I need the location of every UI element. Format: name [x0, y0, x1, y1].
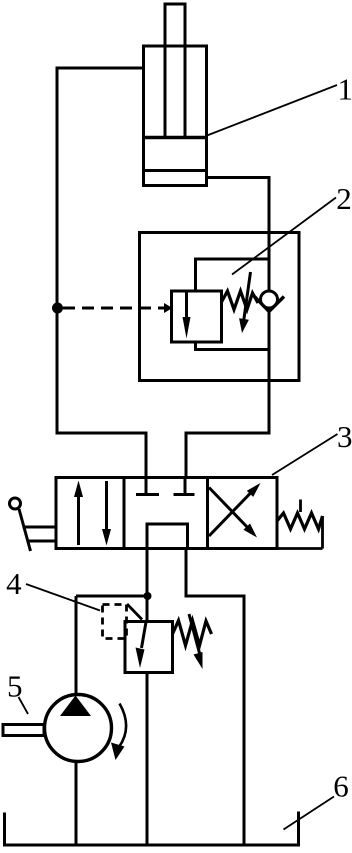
svg-text:1: 1	[338, 72, 352, 107]
svg-text:3: 3	[337, 419, 352, 454]
svg-text:6: 6	[333, 769, 349, 804]
svg-text:2: 2	[336, 181, 352, 216]
svg-text:4: 4	[6, 566, 22, 601]
svg-text:5: 5	[7, 669, 23, 704]
